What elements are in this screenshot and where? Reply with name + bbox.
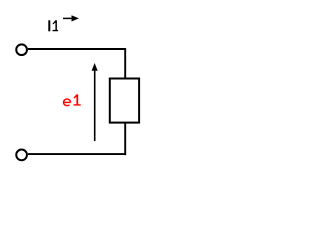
label e1 (glyph e, red) [63,99,71,106]
terminal P1 (top-left port circle) [16,44,27,55]
label I1 (glyph I) [48,20,50,31]
voltage arrow e1 (points up, beside box) [92,63,98,141]
terminal P2 (bottom-left port circle) [16,150,27,161]
wire: top horizontal from P1 to corner [28,48,125,50]
wire: top vertical from corner down to box top [124,48,126,78]
wire: bottom horizontal from corner to P2 [28,153,126,155]
current arrow I1 (points right) [63,15,79,21]
wire: bottom vertical from box bottom to corner [124,123,126,155]
impedance box Z (rectangular dipole body) [110,79,139,123]
label e1 (glyph 1, red) [74,94,81,105]
label I1 (glyph 1) [53,20,59,31]
